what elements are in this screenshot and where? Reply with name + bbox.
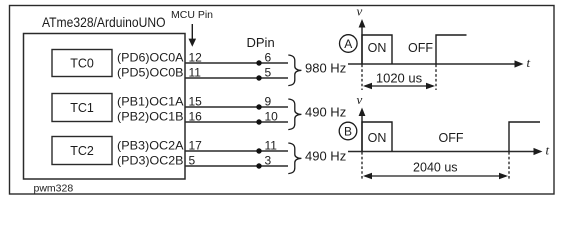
pin label (PB1)OC1A (117, 95, 184, 109)
waveform B period dimension arrow 2040 us (363, 160, 508, 179)
svg-text:(PD3)OC2B: (PD3)OC2B (117, 154, 184, 168)
digital pin number 6 (265, 51, 272, 65)
waveform A ON label (368, 41, 387, 55)
svg-text:(PD6)OC0A: (PD6)OC0A (117, 51, 184, 65)
waveform B ON label (368, 131, 387, 145)
timer block TC1 (52, 94, 112, 122)
svg-text:ON: ON (368, 41, 387, 55)
svg-text:t: t (527, 55, 531, 70)
svg-text:TC1: TC1 (70, 101, 94, 115)
pin label (PD3)OC2B (117, 154, 184, 168)
pin label (PD6)OC0A (117, 51, 184, 65)
frequency label 980 Hz (305, 61, 346, 76)
svg-text:TC0: TC0 (70, 57, 94, 71)
MCU pin number 16 (189, 110, 203, 124)
svg-text:980 Hz: 980 Hz (305, 61, 346, 76)
svg-text:2040 us: 2040 us (413, 160, 457, 174)
waveform B t axis (348, 143, 550, 158)
wire OC2A (185, 150, 288, 152)
MCU pin number 12 (189, 51, 203, 65)
junction dot D5 (256, 75, 261, 80)
MCU block U1 ATme328/ArduinoUNO (24, 14, 186, 179)
waveform A t axis (348, 55, 531, 70)
svg-text:(PB1)OC1A: (PB1)OC1A (117, 95, 184, 109)
svg-text:B: B (344, 125, 352, 139)
brace TC0 pair (288, 55, 301, 86)
svg-text:10: 10 (265, 110, 279, 124)
waveform A dashed edge markers (362, 65, 436, 91)
junction dot D11 (256, 148, 261, 153)
label MCU Pin (171, 9, 213, 21)
svg-text:MCU Pin: MCU Pin (171, 9, 213, 21)
svg-text:OFF: OFF (439, 131, 464, 145)
pin label (PB3)OC2A (117, 139, 184, 153)
waveform A period dimension arrow 1020 us (363, 70, 435, 89)
timer block TC2 (52, 137, 112, 165)
digital pin number 9 (265, 95, 272, 109)
wire OC0A (185, 62, 288, 64)
waveform A v axis (357, 4, 366, 65)
outer frame of figure pwm328 (10, 6, 555, 195)
svg-text:11: 11 (265, 139, 278, 153)
svg-text:DPin: DPin (247, 35, 275, 50)
MCU pin number 17 (189, 139, 203, 153)
brace TC1 pair (288, 99, 301, 130)
waveform B v axis (357, 92, 366, 152)
svg-text:OFF: OFF (408, 41, 433, 55)
junction dot D10 (256, 119, 261, 124)
MCU pin number 11 (189, 66, 202, 80)
MCU pin number 5 (189, 154, 196, 168)
svg-text:5: 5 (265, 66, 272, 80)
pin label (PD5)OC0B (117, 66, 184, 80)
MCU pin number 15 (189, 95, 203, 109)
timer block TC0 (52, 50, 112, 77)
svg-text:A: A (344, 37, 352, 51)
junction dot D9 (256, 104, 261, 109)
svg-text:490 Hz: 490 Hz (305, 105, 346, 120)
wire OC2B (185, 165, 288, 167)
wire OC0B (185, 77, 288, 79)
junction dot D6 (256, 60, 261, 65)
svg-text:v: v (357, 92, 363, 107)
svg-text:v: v (357, 4, 363, 19)
wire OC1A (185, 106, 288, 108)
svg-text:3: 3 (265, 154, 272, 168)
pin label (PB2)OC1B (117, 110, 184, 124)
svg-text:(PD5)OC0B: (PD5)OC0B (117, 66, 184, 80)
junction dot D3 (256, 163, 261, 168)
label DPin (247, 35, 275, 50)
digital pin number 11 (265, 139, 278, 153)
waveform B dashed edge markers (362, 152, 509, 180)
waveform A OFF label (408, 41, 433, 55)
frequency label 490 Hz (TC1) (305, 105, 346, 120)
svg-text:6: 6 (265, 51, 272, 65)
svg-text:(PB3)OC2A: (PB3)OC2A (117, 139, 184, 153)
arrow pointer to MCU pin column (189, 24, 197, 47)
svg-text:1020 us: 1020 us (376, 70, 423, 85)
digital pin number 10 (265, 110, 279, 124)
waveform A circle label (340, 35, 358, 53)
digital pin number 5 (265, 66, 272, 80)
svg-text:TC2: TC2 (70, 144, 94, 158)
svg-text:ATme328/ArduinoUNO: ATme328/ArduinoUNO (42, 14, 166, 30)
svg-text:(PB2)OC1B: (PB2)OC1B (117, 110, 184, 124)
svg-text:490 Hz: 490 Hz (305, 149, 346, 164)
svg-text:9: 9 (265, 95, 272, 109)
frequency label 490 Hz (TC2) (305, 149, 346, 164)
digital pin number 3 (265, 154, 272, 168)
brace TC2 pair (288, 143, 301, 174)
waveform B circle label (339, 122, 357, 140)
waveform B OFF label (439, 131, 464, 145)
wire OC1B (185, 121, 288, 123)
svg-text:t: t (546, 143, 550, 158)
waveform B pulse train (362, 122, 540, 152)
waveform A pulse train (362, 35, 467, 64)
svg-text:ON: ON (368, 131, 387, 145)
svg-text:pwm328: pwm328 (34, 183, 74, 195)
